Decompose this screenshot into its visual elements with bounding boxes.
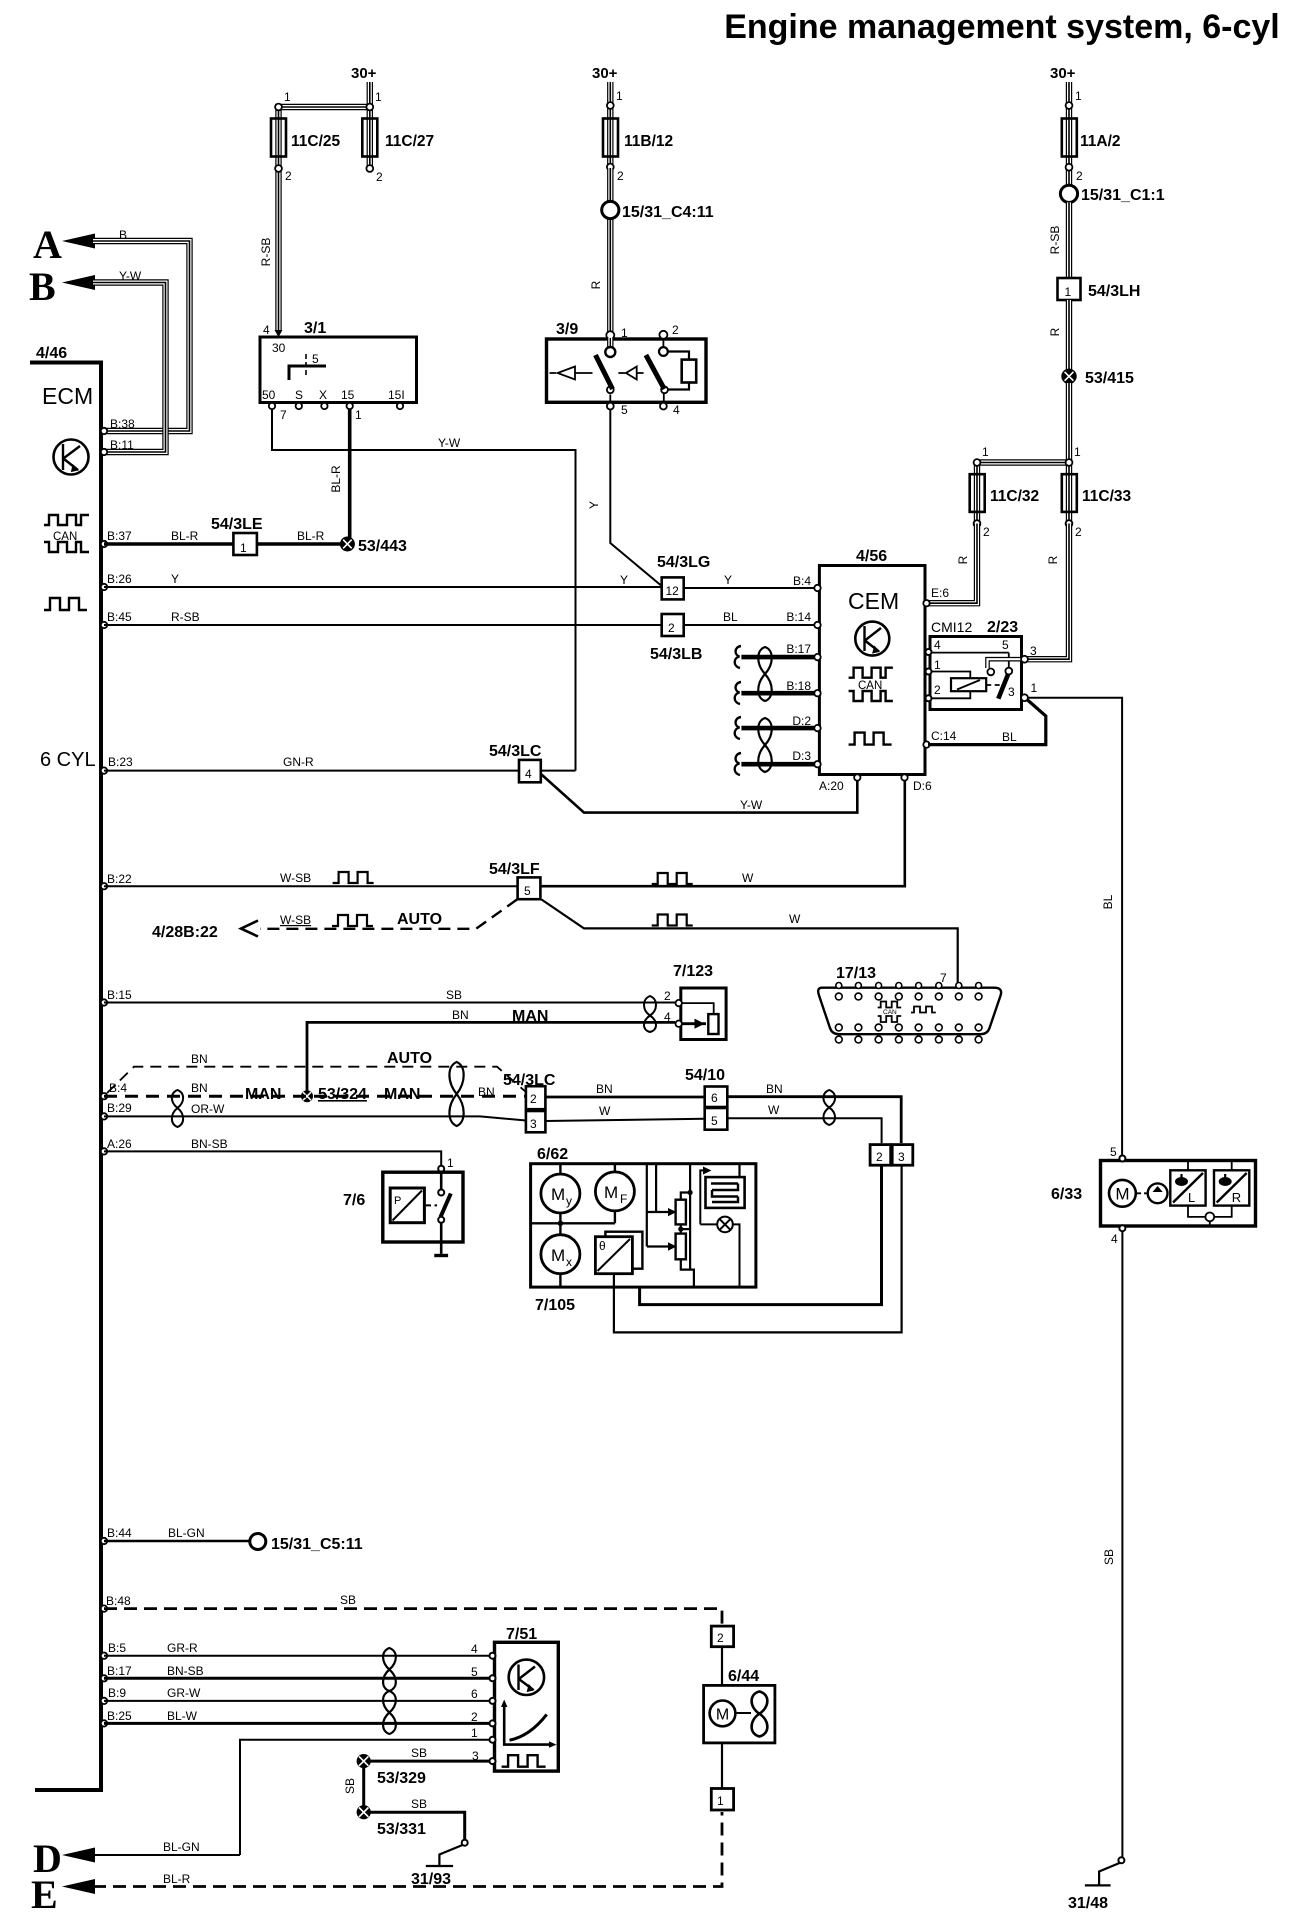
svg-text:15/31_C1:1: 15/31_C1:1 xyxy=(1081,187,1165,204)
svg-text:ECM: ECM xyxy=(42,383,93,409)
relay 3/9 box xyxy=(547,339,707,402)
wire B:17 BN-SB to 7/51 pin5 (thick) xyxy=(104,1677,491,1680)
svg-text:30+: 30+ xyxy=(592,65,618,82)
svg-text:SB: SB xyxy=(411,1797,427,1811)
6/33 pin 5 xyxy=(1119,1156,1125,1162)
svg-text:1: 1 xyxy=(621,326,628,340)
pulse symbol on B:22 wire xyxy=(333,872,374,883)
3/9 pin 4 xyxy=(660,403,667,410)
svg-text:3: 3 xyxy=(530,1117,537,1131)
connector 54/3LH xyxy=(1058,278,1081,300)
svg-text:7/123: 7/123 xyxy=(673,963,713,980)
7/51 pulse symbol xyxy=(502,1755,546,1767)
pin B:22 xyxy=(101,883,107,889)
wire B:29 OR-W to 54/3LC pin3 xyxy=(104,1116,526,1120)
svg-text:BL: BL xyxy=(1101,894,1115,909)
wire 7/51 pin1 to D riser xyxy=(240,1740,491,1855)
2/23 internal wiring xyxy=(931,638,1021,699)
CEM pin B:4 xyxy=(814,585,820,591)
svg-text:AUTO: AUTO xyxy=(397,911,442,928)
wire B:9 GR-W to 7/51 pin6 xyxy=(104,1700,491,1702)
svg-text:7/105: 7/105 xyxy=(535,1297,575,1314)
svg-text:Y-W: Y-W xyxy=(740,798,763,812)
svg-text:BN: BN xyxy=(191,1052,208,1066)
svg-text:Y: Y xyxy=(620,573,628,587)
wire B:23 GN-R to 54/3LC pin4 xyxy=(104,770,519,772)
svg-text:AUTO: AUTO xyxy=(387,1050,432,1067)
3/1 pin X circle xyxy=(321,403,327,409)
twist symbol before 7/123 xyxy=(644,996,656,1032)
svg-text:B:37: B:37 xyxy=(107,529,132,543)
connector box 2 xyxy=(870,1145,891,1166)
svg-text:A:20: A:20 xyxy=(819,779,844,793)
svg-text:Y: Y xyxy=(724,573,732,587)
svg-text:15/31_C5:11: 15/31_C5:11 xyxy=(271,1536,363,1553)
pulse symbol on W wire xyxy=(652,873,693,884)
CEM pin B:18 xyxy=(814,690,820,696)
pin 2 of 11C/27 xyxy=(366,165,373,172)
node 1 (left) xyxy=(275,104,282,111)
svg-text:SB: SB xyxy=(340,1593,356,1607)
svg-text:B:15: B:15 xyxy=(107,988,132,1002)
svg-text:MAN: MAN xyxy=(384,1086,420,1103)
svg-text:5: 5 xyxy=(524,884,531,898)
svg-text:R: R xyxy=(1046,555,1060,564)
CEM pin D:3 xyxy=(814,761,820,767)
svg-text:15: 15 xyxy=(341,388,355,402)
6/62 theta sensor xyxy=(605,1232,642,1269)
wire box2 to 6/44 xyxy=(721,1647,723,1686)
pin B:26 xyxy=(101,584,107,590)
svg-text:7/6: 7/6 xyxy=(343,1192,365,1209)
svg-text:30+: 30+ xyxy=(1050,65,1076,82)
svg-text:W: W xyxy=(789,912,801,926)
CEM CAN symbol xyxy=(849,668,893,701)
svg-text:BL: BL xyxy=(1002,730,1017,744)
wire B:15 SB to 7/123 pin2 xyxy=(104,1002,675,1004)
svg-text:3: 3 xyxy=(1008,685,1015,699)
svg-text:M: M xyxy=(1115,1185,1129,1204)
svg-text:A:26: A:26 xyxy=(107,1137,132,1151)
svg-text:4/28B:22: 4/28B:22 xyxy=(152,924,218,941)
wire B:26 Y to 54/3LG xyxy=(104,586,662,588)
svg-text:B:26: B:26 xyxy=(107,572,132,586)
pin B:48 xyxy=(101,1605,107,1611)
svg-text:M: M xyxy=(551,1246,565,1265)
svg-text:MAN: MAN xyxy=(512,1008,548,1025)
wire SB 53/329 to 7/51 pin3 (thick) xyxy=(370,1760,491,1763)
svg-text:SB: SB xyxy=(411,1746,427,1760)
svg-text:Y-W: Y-W xyxy=(438,436,461,450)
svg-text:1: 1 xyxy=(1065,285,1072,299)
svg-text:2: 2 xyxy=(471,1710,478,1724)
wire C:14 BL to 2/23 pin1 (thick) xyxy=(928,700,1046,745)
3/9 pin 2 xyxy=(659,331,667,339)
svg-text:B:48: B:48 xyxy=(106,1594,131,1608)
3/1 pin 15I circle xyxy=(397,403,403,409)
svg-text:B:23: B:23 xyxy=(108,755,133,769)
svg-text:1: 1 xyxy=(1075,89,1082,103)
svg-text:B:22: B:22 xyxy=(107,872,132,886)
svg-text:BN: BN xyxy=(596,1082,613,1096)
pin 2 of 11B/12 xyxy=(607,164,614,171)
svg-text:1: 1 xyxy=(616,89,623,103)
svg-text:3: 3 xyxy=(472,1749,479,1763)
svg-text:2: 2 xyxy=(668,621,675,635)
ECM pulse symbol xyxy=(44,598,87,610)
svg-text:E:6: E:6 xyxy=(931,586,949,600)
wire B:44 BL-GN to 15/31_C5:11 xyxy=(104,1540,250,1543)
control module 7/51 box xyxy=(495,1642,559,1771)
svg-text:1: 1 xyxy=(471,1726,478,1740)
connector 15/31_C5:11 xyxy=(250,1534,266,1550)
svg-text:11C/27: 11C/27 xyxy=(385,133,434,150)
fan motor 6/44 box xyxy=(704,1685,775,1743)
wire B:22 W-SB to 54/3LF xyxy=(104,885,518,887)
svg-text:R-SB: R-SB xyxy=(1048,226,1062,255)
svg-text:B:9: B:9 xyxy=(108,1686,126,1700)
svg-text:B:5: B:5 xyxy=(108,1641,126,1655)
wire 2/23 pin1 to BL riser xyxy=(1028,698,1122,1156)
svg-text:5: 5 xyxy=(621,403,628,417)
svg-text:P: P xyxy=(394,1195,401,1207)
svg-text:BL: BL xyxy=(723,610,738,624)
splice 53/331 xyxy=(357,1805,371,1819)
svg-text:6 CYL: 6 CYL xyxy=(40,749,96,771)
6/44 fan xyxy=(736,1712,751,1714)
svg-text:Y: Y xyxy=(587,501,601,509)
3/1 pin 50 circle xyxy=(269,403,275,409)
wire 54/3LE to splice 53/443 (thick) xyxy=(257,542,348,545)
wire 54/3LC pin4 to riser xyxy=(541,770,576,772)
svg-text:54/3LH: 54/3LH xyxy=(1088,283,1140,300)
3/9 internal contacts xyxy=(550,338,697,403)
svg-text:3/1: 3/1 xyxy=(304,320,326,337)
CEM pin C:14 xyxy=(923,741,929,747)
2/23 pin 4 xyxy=(926,649,932,655)
svg-text:54/3LC: 54/3LC xyxy=(489,743,542,760)
svg-text:OR-W: OR-W xyxy=(191,1102,225,1116)
svg-text:4: 4 xyxy=(934,638,941,652)
svg-text:54/3LB: 54/3LB xyxy=(650,646,702,663)
splice 53/329 xyxy=(357,1754,371,1768)
connector box 3 xyxy=(892,1145,913,1166)
wire B:45 R-SB to 54/3LB xyxy=(104,624,662,626)
connector 54/10 pin 5 xyxy=(705,1108,728,1130)
6/33 nozzle L box xyxy=(1170,1170,1205,1205)
svg-text:53/329: 53/329 xyxy=(377,1770,426,1787)
splice 53/443 xyxy=(341,537,355,551)
svg-text:BN-SB: BN-SB xyxy=(191,1137,228,1151)
wire 30+ to fuse 11B/12 (triple) xyxy=(607,82,613,168)
pin B:15 xyxy=(101,999,107,1005)
3/9 pin 1 xyxy=(606,331,614,339)
connector 54/3LF xyxy=(518,877,541,899)
wire 30+ through 11A/2 to 15/31_C1:1 (triple) xyxy=(1066,82,1072,186)
connector 7/123 xyxy=(681,988,726,1040)
svg-text:54/3LE: 54/3LE xyxy=(211,516,263,533)
svg-text:1: 1 xyxy=(717,1794,724,1808)
relay 2/23 box xyxy=(930,637,1022,710)
2/23 pin 1 (right) xyxy=(1021,694,1028,701)
svg-text:3: 3 xyxy=(1030,644,1037,658)
wire SB 53/329 to 53/331 (thick) xyxy=(362,1766,365,1806)
svg-text:2: 2 xyxy=(530,1092,537,1106)
wire R 11C/33 to 2/23 pin3 (triple) xyxy=(1027,524,1069,660)
wire Y from 3/9 pin5 to 54/3LG xyxy=(610,410,661,587)
wire BN MAN riser to 7/123 pin4 (thick) xyxy=(307,1022,675,1095)
wire 54/3LF W to CEM D:6 xyxy=(540,780,904,886)
svg-text:4: 4 xyxy=(1111,1232,1118,1246)
dashed AUTO W-SB wire to 4/28B:22 xyxy=(260,900,517,929)
svg-text:6/44: 6/44 xyxy=(728,1668,759,1685)
fuse 11C/32 xyxy=(970,474,985,512)
pin 2 of 11C/32 xyxy=(974,520,981,527)
17/13 bottom row pins xyxy=(835,1024,982,1043)
pin B:11 xyxy=(101,449,107,455)
7/123 internals xyxy=(682,1003,719,1034)
twist symbol D:2/D:3 xyxy=(758,718,772,772)
node 1 (right) xyxy=(366,104,373,111)
pin B:25 xyxy=(101,1720,107,1726)
svg-text:54/3LG: 54/3LG xyxy=(657,554,710,571)
svg-text:1: 1 xyxy=(934,658,941,672)
connector 54/3LB xyxy=(662,614,684,636)
svg-text:x: x xyxy=(566,1255,572,1269)
svg-text:S: S xyxy=(295,388,303,402)
svg-text:1: 1 xyxy=(1031,681,1038,695)
twist symbol on BN/W pair xyxy=(823,1090,835,1125)
2/23 pin 3 (right) xyxy=(1021,656,1028,663)
fuse 11C/33 xyxy=(1062,474,1077,512)
pin 2 of 11C/25 xyxy=(275,165,282,172)
svg-text:B: B xyxy=(119,228,127,242)
svg-text:B:11: B:11 xyxy=(110,438,134,452)
svg-text:4: 4 xyxy=(673,403,680,417)
connector 15/31_C4:11 xyxy=(602,201,619,218)
svg-text:2: 2 xyxy=(672,323,679,337)
svg-text:R-SB: R-SB xyxy=(259,238,273,267)
diagnostic connector 17/13 xyxy=(818,988,1001,1034)
svg-text:B:38: B:38 xyxy=(110,417,135,431)
7/123 pin 2 xyxy=(676,1000,682,1006)
pin B:38 xyxy=(101,428,107,434)
svg-text:12: 12 xyxy=(666,584,680,598)
wire B:11 to B (triple) xyxy=(93,283,166,453)
wire 3/1 pin50 to Y-W to 54/3LC riser xyxy=(272,409,576,771)
twist symbol before 54/3LC xyxy=(449,1062,463,1126)
17/13 CAN symbol xyxy=(878,1002,936,1023)
pin 2 of 11A/2 xyxy=(1066,164,1073,171)
wire A:26 BN-SB to 7/6 xyxy=(104,1151,441,1166)
6/33 nozzle R box xyxy=(1214,1170,1249,1205)
svg-text:15I: 15I xyxy=(388,388,405,402)
svg-text:Engine management system, 6-cy: Engine management system, 6-cyl xyxy=(724,8,1280,46)
fuse 11A/2 xyxy=(1062,119,1077,157)
svg-text:GR-R: GR-R xyxy=(167,1641,198,1655)
svg-text:M: M xyxy=(551,1185,565,1204)
svg-text:R: R xyxy=(589,280,603,289)
CEM pin D:6 xyxy=(901,774,907,780)
svg-text:CAN: CAN xyxy=(883,1009,897,1016)
6/62 heating element xyxy=(706,1177,745,1208)
svg-text:B:25: B:25 xyxy=(107,1709,132,1723)
pin B:45 xyxy=(101,622,107,628)
wire BL-GN to D xyxy=(93,1854,240,1856)
6/62 motor My xyxy=(541,1174,580,1213)
connector 54/3LC pin 4 xyxy=(519,760,541,782)
wire SB from 6/33 pin4 to ground 31/48 xyxy=(1121,1231,1123,1858)
svg-text:X: X xyxy=(319,388,327,402)
svg-text:2: 2 xyxy=(285,169,292,183)
wire B:25 BL-W to 7/51 pin2 (thick) xyxy=(104,1722,491,1725)
svg-text:7: 7 xyxy=(280,408,287,422)
pin B:17 (lower) xyxy=(101,1675,107,1681)
connector 54/3LG xyxy=(662,577,684,599)
dashed wire BN MAN from B:4 to 54/3LC pin2 (thick) xyxy=(104,1095,526,1098)
17/13 top row pins xyxy=(835,983,982,1000)
svg-text:1: 1 xyxy=(375,90,382,104)
svg-text:5: 5 xyxy=(1002,638,1009,652)
connector 54/10 pin 6 xyxy=(705,1087,728,1108)
svg-text:53/331: 53/331 xyxy=(377,1821,426,1838)
fuse 11C/25 xyxy=(271,119,286,157)
svg-text:R: R xyxy=(1232,1190,1241,1205)
svg-text:W: W xyxy=(599,1104,611,1118)
svg-text:D:6: D:6 xyxy=(913,779,932,793)
svg-text:2: 2 xyxy=(376,170,383,184)
svg-text:5: 5 xyxy=(312,352,319,366)
svg-text:2: 2 xyxy=(876,1150,883,1164)
svg-text:6: 6 xyxy=(471,1687,478,1701)
6/33 pump xyxy=(1137,1192,1147,1194)
coil wire B:18 (twisted) xyxy=(741,691,814,696)
ground 31/48 xyxy=(1118,1857,1124,1863)
wire box3 down to 6/62 theta xyxy=(614,1165,902,1332)
6/44 motor M xyxy=(710,1701,736,1727)
7/6 P sensor xyxy=(390,1188,424,1223)
svg-text:1: 1 xyxy=(447,1156,454,1170)
7/6 pin 1 xyxy=(438,1166,444,1172)
pin 1 of 11A/2 xyxy=(1066,102,1073,109)
twist symbol B:17/B:18 xyxy=(758,647,772,701)
coil wire B:17 (twisted) xyxy=(741,655,814,660)
CEM pin B:17 xyxy=(814,654,820,660)
svg-text:D:3: D:3 xyxy=(792,749,811,763)
3/1 internal switch xyxy=(289,354,326,380)
wire 54/3LG Y to CEM B:4 xyxy=(684,587,817,589)
6/62 motor Mx xyxy=(541,1235,580,1274)
svg-text:CEM: CEM xyxy=(848,588,899,614)
svg-text:2: 2 xyxy=(717,1631,724,1645)
svg-text:31/48: 31/48 xyxy=(1068,1895,1108,1912)
pin A:26 xyxy=(101,1148,107,1154)
3/1 pin 15 circle xyxy=(347,403,353,409)
svg-text:7/51: 7/51 xyxy=(506,1626,537,1643)
6/33 L nozzle symbol xyxy=(1187,1161,1189,1171)
CEM box 4/56 xyxy=(819,566,925,775)
wire W 54/10 to connector box2 xyxy=(727,1118,881,1143)
svg-text:L: L xyxy=(1188,1190,1195,1205)
svg-text:54/10: 54/10 xyxy=(685,1067,725,1084)
wire B:37 BL-R to 54/3LE (thick) xyxy=(104,542,233,545)
svg-text:54/3LF: 54/3LF xyxy=(489,861,540,878)
svg-text:1: 1 xyxy=(355,408,362,422)
svg-text:17/13: 17/13 xyxy=(836,965,876,982)
svg-text:4: 4 xyxy=(263,323,270,337)
wire B:38 to A (triple) xyxy=(93,241,190,431)
wire 54/3LF diagonal to W line to 17/13 pin7 xyxy=(542,900,958,985)
svg-text:BN: BN xyxy=(191,1081,208,1095)
7/51 pins xyxy=(490,1653,496,1764)
wire 6/44 to box1 xyxy=(721,1743,723,1789)
svg-text:R: R xyxy=(1048,327,1062,336)
pin B:9 xyxy=(101,1698,107,1704)
svg-text:4: 4 xyxy=(525,767,532,781)
svg-text:6/62: 6/62 xyxy=(537,1146,568,1163)
svg-text:BN: BN xyxy=(766,1082,783,1096)
svg-text:R-SB: R-SB xyxy=(171,610,200,624)
CEM pin B:14 xyxy=(814,622,820,628)
svg-text:6: 6 xyxy=(711,1091,718,1105)
wire R from 53/415 down to split (triple) xyxy=(977,383,1069,524)
svg-text:BL-R: BL-R xyxy=(329,465,343,493)
splice 53/324 xyxy=(301,1090,313,1102)
6/33 motor M xyxy=(1109,1180,1136,1207)
svg-text:B:45: B:45 xyxy=(107,610,132,624)
dashed wire B:48 SB to 6/44 xyxy=(104,1609,722,1626)
ECM CAN symbol xyxy=(44,515,89,552)
svg-text:W: W xyxy=(742,871,754,885)
washer unit 6/33 box xyxy=(1101,1161,1256,1227)
pin B:44 xyxy=(101,1538,107,1544)
svg-text:54/3LC: 54/3LC xyxy=(503,1072,556,1089)
6/33 pin 4 xyxy=(1119,1225,1125,1231)
svg-text:BN-SB: BN-SB xyxy=(167,1664,204,1678)
svg-text:BL-R: BL-R xyxy=(297,529,325,543)
ground 31/93 xyxy=(462,1840,468,1846)
wire 54/3LB BL to CEM B:14 xyxy=(684,624,817,626)
wire BN 54/3LC to 54/10 (thick) xyxy=(545,1096,704,1099)
twist symbol B:9/B:25 xyxy=(383,1691,396,1734)
svg-text:B:44: B:44 xyxy=(107,1526,132,1540)
connector 54/3LC pin 3 xyxy=(526,1111,546,1132)
fuse 11B/12 xyxy=(603,119,618,157)
svg-text:C:14: C:14 xyxy=(931,729,957,743)
svg-text:2: 2 xyxy=(1076,169,1083,183)
svg-text:SB: SB xyxy=(446,988,462,1002)
node 1 right of split xyxy=(1066,459,1073,466)
svg-text:5: 5 xyxy=(471,1665,478,1679)
svg-text:4: 4 xyxy=(664,1010,671,1024)
CEM pulse symbol xyxy=(849,733,892,745)
pin B:23 xyxy=(101,767,107,773)
wire 30+ to fuses 11C/25 and 11C/27 (triple) xyxy=(279,82,370,169)
pin B:5 xyxy=(101,1653,107,1659)
svg-text:11C/25: 11C/25 xyxy=(291,133,341,150)
2/23 pin 1 (left) xyxy=(926,669,932,675)
svg-text:11B/12: 11B/12 xyxy=(624,133,673,150)
svg-text:MAN: MAN xyxy=(245,1086,281,1103)
svg-text:BL-R: BL-R xyxy=(163,1872,191,1886)
node 1 left of split xyxy=(974,459,981,466)
svg-text:BL-GN: BL-GN xyxy=(168,1526,205,1540)
svg-text:1: 1 xyxy=(982,445,989,459)
CEM pin D:2 xyxy=(814,725,820,731)
svg-text:6/33: 6/33 xyxy=(1051,1186,1082,1203)
pin B:4 (ECM) xyxy=(101,1093,107,1099)
svg-text:BL-R: BL-R xyxy=(171,529,199,543)
